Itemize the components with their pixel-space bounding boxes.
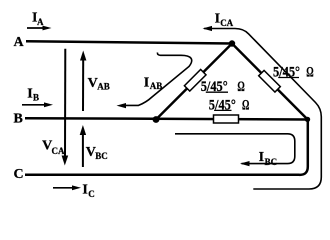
svg-text:C: C [14, 167, 24, 182]
svg-text:AB: AB [97, 82, 110, 92]
svg-text:Ω: Ω [242, 97, 249, 113]
svg-text:V: V [88, 76, 98, 91]
svg-text:I: I [82, 182, 87, 197]
svg-text:B: B [33, 93, 39, 103]
svg-text:Ω: Ω [306, 64, 313, 80]
svg-text:CA: CA [52, 146, 65, 156]
svg-text:I: I [27, 87, 32, 102]
svg-text:I: I [144, 76, 149, 91]
svg-text:Ω: Ω [237, 79, 244, 95]
svg-text:AB: AB [150, 81, 163, 91]
svg-text:I: I [259, 150, 264, 165]
svg-text:BC: BC [95, 151, 108, 161]
svg-text:A: A [14, 35, 25, 50]
svg-text:B: B [14, 112, 23, 127]
svg-text:CA: CA [220, 18, 233, 28]
svg-text:C: C [88, 189, 95, 199]
svg-text:A: A [37, 17, 44, 27]
svg-text:BC: BC [265, 157, 278, 167]
